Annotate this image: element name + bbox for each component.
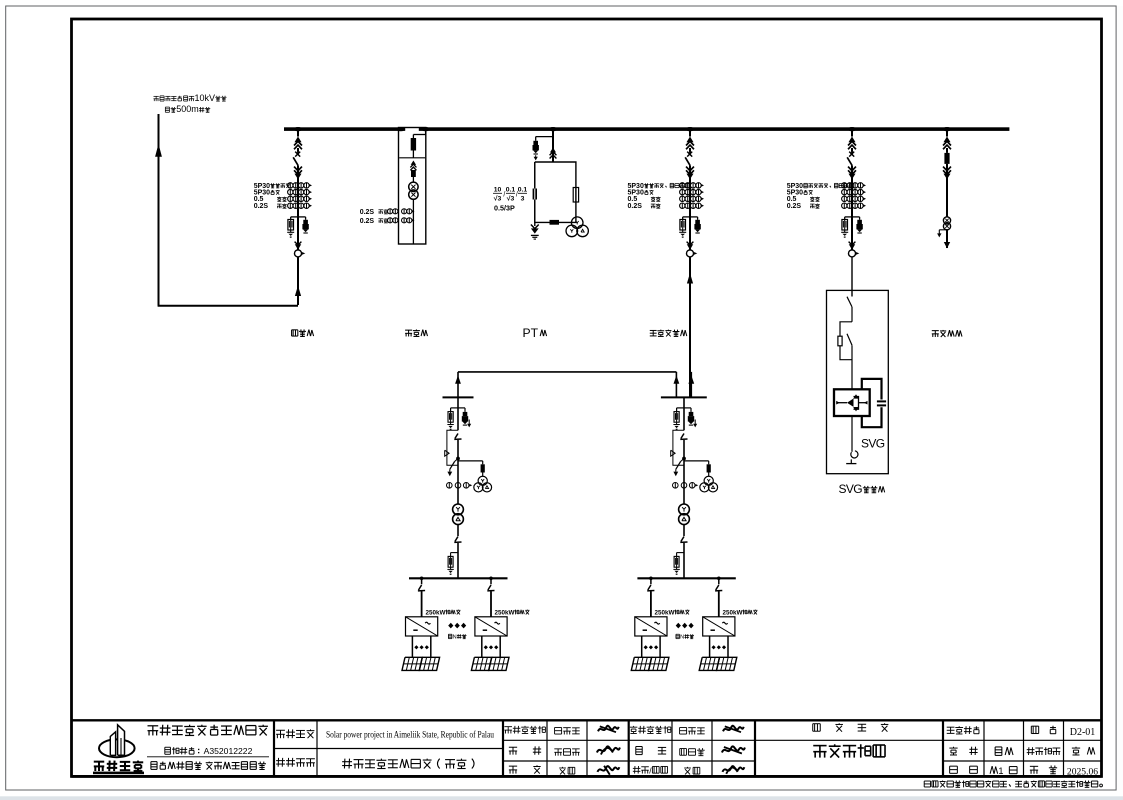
svg-text:3: 3 — [521, 195, 525, 202]
svg-text:0.2S: 0.2S — [787, 203, 802, 210]
svg-text:0.1: 0.1 — [518, 187, 528, 194]
svg-text:N: N — [680, 635, 684, 641]
svg-text:0.1: 0.1 — [506, 187, 516, 194]
svg-text:/: / — [516, 192, 518, 199]
svg-text:0.2S: 0.2S — [628, 203, 643, 210]
svg-text:250kW: 250kW — [723, 609, 743, 616]
svg-text:PT: PT — [523, 326, 539, 340]
svg-text:0.2S: 0.2S — [360, 218, 375, 225]
svg-text:2025.06: 2025.06 — [1067, 766, 1098, 777]
svg-text:SVG: SVG — [839, 482, 863, 496]
svg-text:0.5/3P: 0.5/3P — [494, 203, 515, 212]
svg-text:Solar power project in Aimelii: Solar power project in Aimeliik State, R… — [326, 729, 494, 740]
svg-text:√3: √3 — [507, 194, 515, 202]
svg-text:250kW: 250kW — [655, 609, 675, 616]
svg-text:A352012222: A352012222 — [204, 746, 253, 756]
svg-text:N: N — [453, 635, 457, 641]
svg-text:0.2S: 0.2S — [360, 209, 375, 216]
svg-text:/: / — [503, 192, 505, 199]
svg-text:250kW: 250kW — [495, 609, 515, 616]
svg-text:500m: 500m — [176, 104, 199, 114]
svg-text:√3: √3 — [494, 194, 502, 202]
svg-text:10: 10 — [494, 187, 502, 194]
svg-text:0.2S: 0.2S — [254, 203, 269, 210]
svg-text:SVG: SVG — [861, 437, 885, 451]
svg-text:10kV: 10kV — [194, 93, 215, 103]
svg-text:D2-01: D2-01 — [1070, 727, 1096, 738]
svg-text:250kW: 250kW — [426, 609, 446, 616]
svg-text:1: 1 — [998, 766, 1003, 776]
